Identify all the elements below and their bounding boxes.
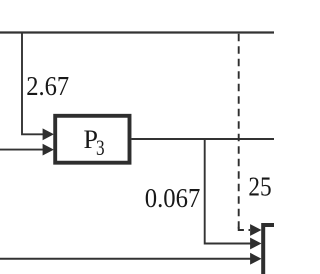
arrowhead middle into bottom box [250,238,261,250]
wire branch down at x=204 to bottom box middle input [205,139,251,244]
svg-text:0.067: 0.067 [145,183,201,213]
arrowhead dashed into bottom box [250,224,261,236]
dashed wire corner into bottom box upper input [239,227,250,230]
block P3 [55,116,129,163]
arrowhead into P3 upper input [43,128,54,140]
svg-text:2.67: 2.67 [26,71,69,101]
arrowhead bottom into bottom box [250,253,261,265]
wire bottom horizontal into bottom box [0,258,251,260]
wire branch from top bus down to P3 input [22,33,44,135]
block bottom-right (clipped) [263,225,320,274]
wire top horizontal bus [0,31,274,33]
wire left input to P3 [0,149,44,151]
arrowhead into P3 lower input [43,144,54,156]
svg-text:25: 25 [248,172,271,202]
wire P3 output to right edge [132,138,275,140]
dashed wire vertical from top bus [238,34,240,230]
